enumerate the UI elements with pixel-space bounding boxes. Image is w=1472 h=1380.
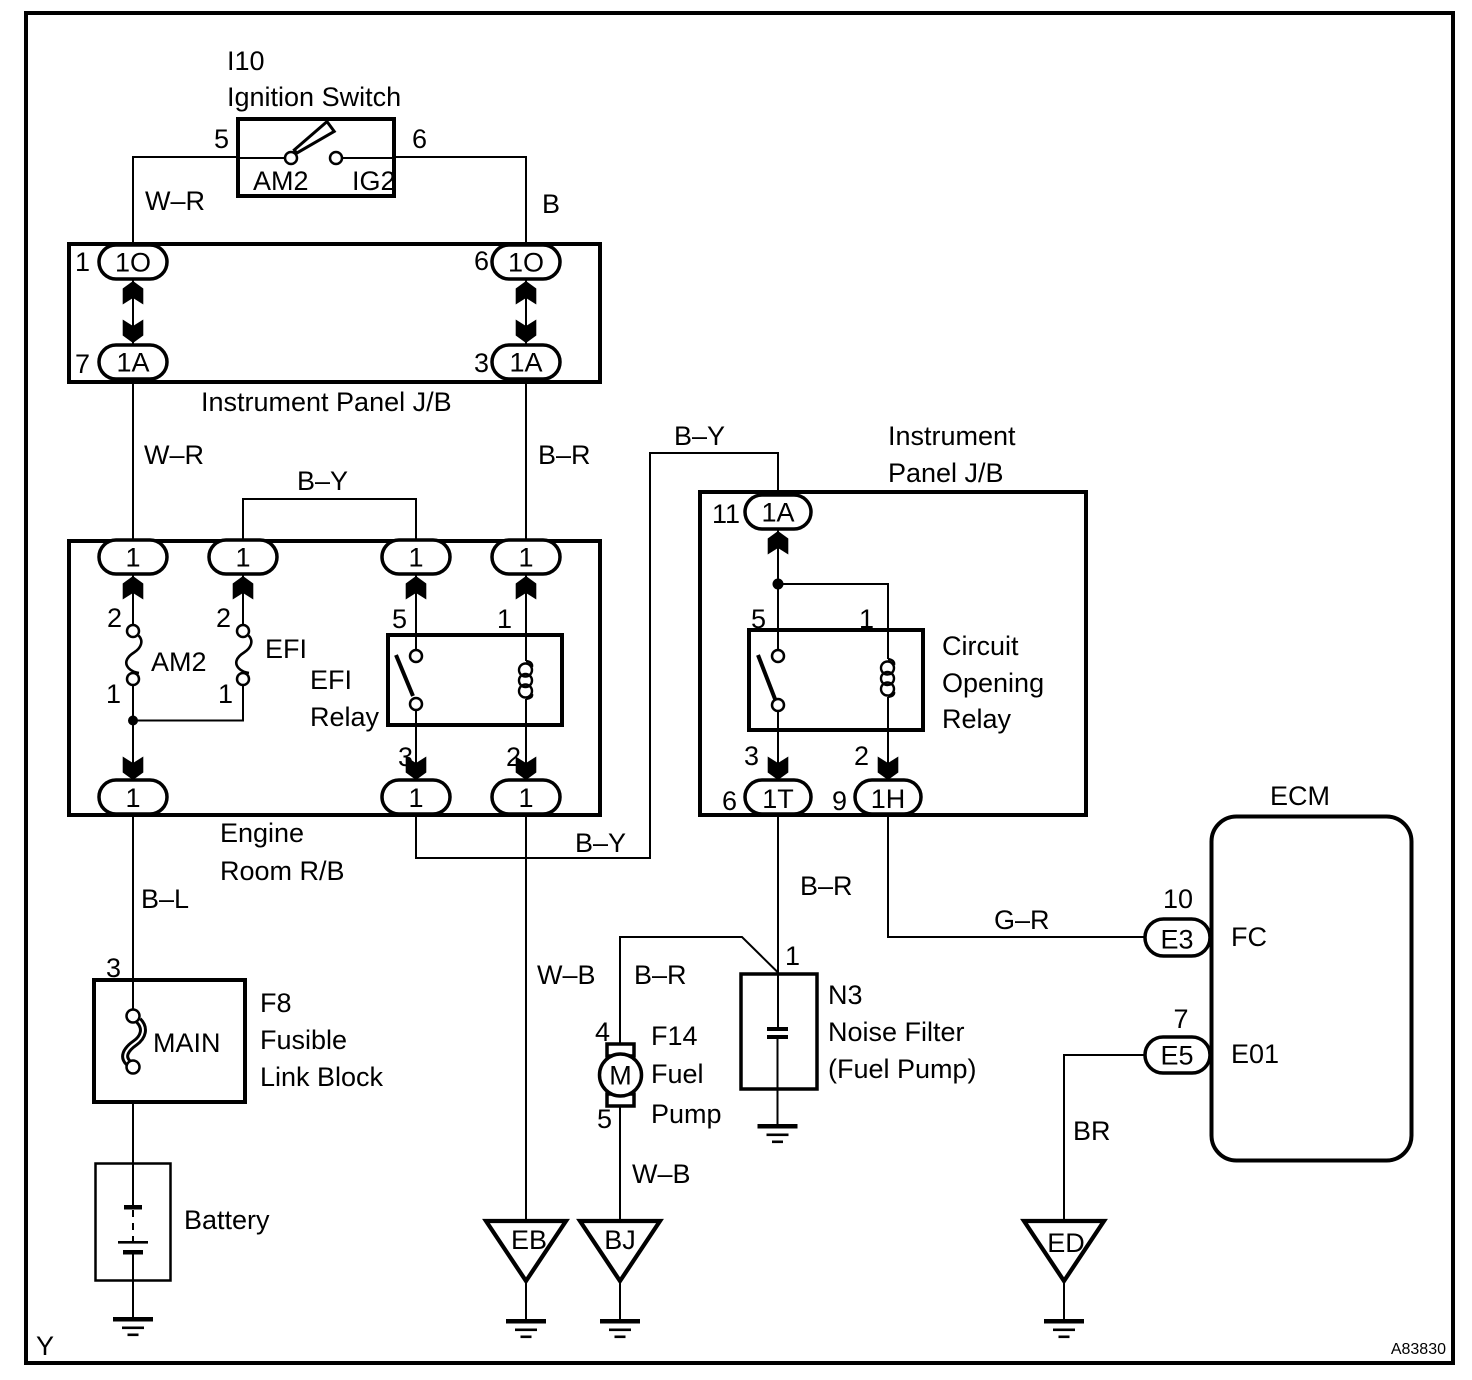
svg-text:1: 1 [859,604,874,634]
svg-text:Instrument: Instrument [888,421,1016,451]
svg-text:Fuel: Fuel [651,1059,704,1089]
svg-text:Instrument Panel J/B: Instrument Panel J/B [201,387,452,417]
svg-text:1: 1 [106,679,121,709]
svg-text:7: 7 [75,349,90,379]
svg-text:1: 1 [408,783,423,813]
svg-text:2: 2 [107,603,122,633]
svg-text:Relay: Relay [942,704,1012,734]
svg-text:BJ: BJ [604,1225,636,1255]
svg-text:EFI: EFI [310,665,352,695]
svg-text:Link Block: Link Block [260,1062,384,1092]
svg-text:1A: 1A [116,348,149,378]
svg-text:B–L: B–L [141,884,189,914]
svg-text:B–Y: B–Y [575,828,626,858]
svg-text:6: 6 [474,246,489,276]
svg-text:ECM: ECM [1270,781,1330,811]
svg-text:1: 1 [235,543,250,573]
svg-text:B–R: B–R [538,440,591,470]
svg-text:2: 2 [216,603,231,633]
svg-text:(Fuel Pump): (Fuel Pump) [828,1054,977,1084]
svg-text:W–R: W–R [144,440,204,470]
svg-text:Battery: Battery [184,1205,270,1235]
svg-text:9: 9 [832,786,847,816]
svg-text:IG2: IG2 [352,166,396,196]
svg-text:MAIN: MAIN [153,1028,221,1058]
svg-text:AM2: AM2 [253,166,309,196]
svg-text:Y: Y [36,1331,54,1361]
svg-text:FC: FC [1231,922,1267,952]
svg-text:B–R: B–R [634,960,687,990]
svg-text:Opening: Opening [942,668,1044,698]
svg-text:6: 6 [412,124,427,154]
svg-text:I10: I10 [227,46,265,76]
svg-text:B–Y: B–Y [297,466,348,496]
svg-text:Ignition Switch: Ignition Switch [227,82,401,112]
svg-text:A83830: A83830 [1391,1341,1446,1358]
svg-text:5: 5 [751,604,766,634]
svg-text:Noise Filter: Noise Filter [828,1017,965,1047]
svg-text:1T: 1T [762,784,794,814]
svg-text:Room R/B: Room R/B [220,856,345,886]
svg-text:G–R: G–R [994,905,1050,935]
svg-text:10: 10 [1163,884,1193,914]
svg-text:F14: F14 [651,1021,698,1051]
svg-text:N3: N3 [828,980,863,1010]
svg-text:Fusible: Fusible [260,1025,347,1055]
svg-text:6: 6 [722,786,737,816]
svg-text:ED: ED [1047,1228,1085,1258]
svg-text:3: 3 [106,953,121,983]
svg-text:B: B [542,189,560,219]
svg-text:Panel J/B: Panel J/B [888,458,1004,488]
svg-text:B–R: B–R [800,871,853,901]
svg-text:EB: EB [511,1225,547,1255]
svg-text:M: M [609,1061,632,1091]
svg-text:1O: 1O [508,248,544,278]
svg-text:Relay: Relay [310,702,380,732]
svg-text:1: 1 [125,543,140,573]
svg-text:1: 1 [408,543,423,573]
svg-text:AM2: AM2 [151,647,207,677]
svg-text:Pump: Pump [651,1099,722,1129]
svg-text:W–B: W–B [537,960,596,990]
svg-text:7: 7 [1173,1004,1188,1034]
svg-text:3: 3 [744,741,759,771]
svg-text:E3: E3 [1160,925,1193,955]
svg-text:W–B: W–B [632,1159,691,1189]
svg-text:11: 11 [712,499,740,529]
svg-text:3: 3 [474,348,489,378]
svg-text:1A: 1A [509,348,542,378]
svg-text:1: 1 [497,604,512,634]
svg-text:5: 5 [214,124,229,154]
svg-text:B–Y: B–Y [674,421,725,451]
svg-text:1: 1 [125,783,140,813]
svg-text:1: 1 [75,247,90,277]
svg-text:1H: 1H [871,784,906,814]
svg-text:2: 2 [506,742,521,772]
svg-text:2: 2 [854,741,869,771]
svg-text:F8: F8 [260,988,292,1018]
svg-text:1: 1 [218,679,233,709]
svg-text:5: 5 [597,1104,612,1134]
svg-text:E01: E01 [1231,1039,1279,1069]
svg-text:4: 4 [595,1017,610,1047]
svg-text:1: 1 [518,783,533,813]
svg-text:3: 3 [398,742,413,772]
svg-text:1: 1 [518,543,533,573]
svg-text:Circuit: Circuit [942,631,1019,661]
svg-text:5: 5 [392,604,407,634]
svg-text:1: 1 [785,941,800,971]
svg-text:1A: 1A [761,498,794,528]
svg-text:1O: 1O [115,248,151,278]
svg-text:Engine: Engine [220,818,304,848]
svg-text:E5: E5 [1160,1041,1193,1071]
svg-text:EFI: EFI [265,634,307,664]
svg-text:BR: BR [1073,1116,1111,1146]
svg-text:W–R: W–R [145,186,205,216]
